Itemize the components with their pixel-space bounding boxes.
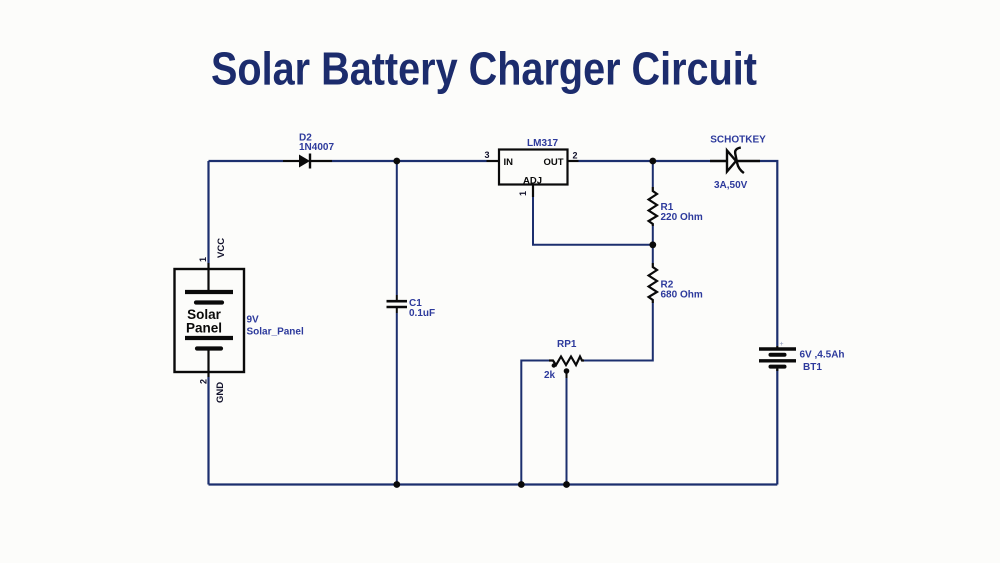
wire top rail OUT to schottky xyxy=(579,160,711,162)
wire RP1 wiper down xyxy=(566,374,568,485)
node junction bottom wiper xyxy=(563,481,570,488)
solar panel box xyxy=(175,269,245,372)
wire battery to bottom rail xyxy=(776,369,778,485)
svg-text:SCHOTKEY: SCHOTKEY xyxy=(710,135,766,146)
resistor R1 xyxy=(649,187,657,226)
pin 1 ADJ stub xyxy=(532,185,534,198)
svg-text:1: 1 xyxy=(198,257,208,262)
node junction top C1 xyxy=(393,158,400,165)
wire R2 bottom to RP1 right xyxy=(584,303,653,361)
svg-text:1N4007: 1N4007 xyxy=(299,142,334,153)
svg-text:0.1uF: 0.1uF xyxy=(409,308,435,319)
svg-text:2k: 2k xyxy=(544,370,556,381)
diode D2 xyxy=(283,154,332,169)
wire bottom rail xyxy=(209,483,778,485)
svg-text:6V ,4.5Ah: 6V ,4.5Ah xyxy=(800,350,845,361)
resistor R2 xyxy=(649,263,657,303)
node junction ADJ/R1/R2 xyxy=(649,241,656,248)
svg-text:3: 3 xyxy=(485,150,490,160)
svg-text:Solar Battery Charger Circuit: Solar Battery Charger Circuit xyxy=(211,43,757,95)
wire ADJ down and right xyxy=(533,197,653,245)
wire C1 upper xyxy=(396,161,398,295)
wire C1 lower xyxy=(396,313,398,485)
wire R1 top lead xyxy=(652,161,654,187)
svg-text:OUT: OUT xyxy=(543,157,563,168)
node junction bottom RP1 left xyxy=(518,481,525,488)
svg-text:1: 1 xyxy=(518,191,528,196)
node junction top R1 xyxy=(649,158,656,165)
wire top rail schottky to right corner and down xyxy=(760,161,777,346)
svg-text:VCC: VCC xyxy=(216,238,227,258)
svg-text:LM317: LM317 xyxy=(527,138,559,149)
wire top rail D2 to C1 junction xyxy=(332,160,487,162)
regulator U1 LM317 xyxy=(499,150,568,185)
svg-text:680 Ohm: 680 Ohm xyxy=(661,290,703,301)
node junction bottom C1 xyxy=(393,481,400,488)
diode SCHOTKEY xyxy=(710,148,760,174)
wire RP1 left down xyxy=(521,361,549,485)
wire left vertical xyxy=(207,161,209,263)
svg-text:3A,50V: 3A,50V xyxy=(714,180,748,191)
svg-text:Panel: Panel xyxy=(186,321,222,336)
svg-text:Solar_Panel: Solar_Panel xyxy=(247,327,304,338)
capacitor C1 xyxy=(387,295,408,313)
svg-text:2: 2 xyxy=(199,379,209,384)
svg-text:GND: GND xyxy=(215,382,226,403)
pin 2 stub xyxy=(568,160,579,162)
svg-text:RP1: RP1 xyxy=(557,339,577,350)
svg-text:+: + xyxy=(780,341,784,348)
svg-text:ADJ: ADJ xyxy=(523,176,542,187)
potentiometer RP1 xyxy=(549,357,584,366)
wire left vertical lower xyxy=(207,377,209,485)
wire R2 top lead xyxy=(652,245,654,263)
wire top rail left segment xyxy=(209,160,284,162)
pin 3 stub xyxy=(487,160,500,162)
svg-text:IN: IN xyxy=(504,157,514,168)
solar panel cell symbol xyxy=(185,263,233,377)
svg-text:2: 2 xyxy=(573,151,578,161)
battery BT1 xyxy=(759,346,796,371)
svg-text:BT1: BT1 xyxy=(803,362,822,373)
svg-text:220 Ohm: 220 Ohm xyxy=(661,212,703,223)
svg-text:9V: 9V xyxy=(247,315,260,326)
wire R1 bottom lead xyxy=(652,226,654,245)
